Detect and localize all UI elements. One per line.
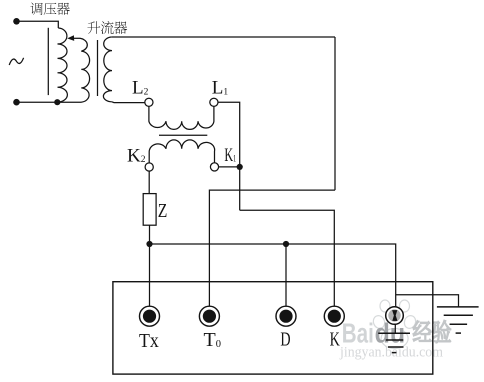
svg-text:Tx: Tx: [139, 330, 159, 352]
wire Z to bottom rail: [149, 225, 151, 306]
T2 core line: [97, 40, 99, 96]
junction dot rail at D: [283, 241, 289, 247]
variac winding: [57, 28, 67, 102]
wire L1 to right vertical: [218, 102, 240, 210]
svg-text:Z: Z: [158, 200, 168, 222]
wire AC top to variac: [17, 21, 59, 28]
terminal T0: [199, 306, 219, 326]
wire AC bottom rail: [17, 101, 82, 103]
terminal D: [276, 306, 296, 326]
L winding (primary): [149, 106, 214, 129]
label 调压器: [30, 2, 42, 14]
mutual inductor core line: [159, 134, 207, 136]
wire earth terminal to internal earth: [394, 324, 396, 333]
wire D riser: [285, 244, 287, 306]
wire right vertical upper: [334, 37, 336, 190]
variac core line: [47, 28, 49, 95]
AC source terminal dot top: [13, 18, 20, 25]
wire to external ground: [396, 295, 459, 307]
watermark baidu paw logo: [372, 300, 418, 349]
wire K2 to Z: [148, 171, 150, 194]
wire T2 secondary top to right: [112, 36, 335, 38]
label 升流器: [87, 21, 100, 34]
terminal K: [324, 306, 344, 326]
T2 primary winding: [80, 38, 90, 102]
variac tap arrow: [67, 35, 74, 41]
wire to terminal K: [240, 210, 335, 306]
bottom rail wire: [150, 244, 396, 307]
node L1: [210, 98, 218, 106]
junction dot AC bottom / variac end: [54, 99, 60, 105]
junction dot rail left: [146, 241, 152, 247]
wire to terminal T0: [209, 190, 335, 306]
terminal earth inner disc: [388, 309, 400, 321]
external ground symbol: [437, 307, 479, 333]
watermark char 经: [413, 321, 431, 342]
AC source terminal dot bottom: [13, 99, 20, 106]
terminal earth outer ring: [386, 307, 404, 325]
K winding (secondary): [149, 140, 214, 163]
T2 secondary winding: [103, 37, 112, 102]
impedance Z: [143, 194, 156, 226]
wire T2 secondary bottom to node L2: [112, 101, 145, 104]
node K2: [145, 163, 153, 171]
terminal earth center mark: [392, 310, 397, 321]
watermark char 验: [433, 320, 451, 342]
svg-text:K: K: [330, 329, 341, 351]
wire tap arrow to T2 primary: [74, 37, 81, 39]
node L2: [145, 98, 153, 106]
wire K1 to junction: [218, 166, 239, 168]
test set box: [113, 282, 433, 374]
node K1: [210, 163, 218, 171]
junction dot L1/K1: [237, 164, 243, 170]
AC source sine symbol: [9, 58, 23, 65]
terminal Tx: [140, 306, 160, 326]
internal earth symbol: [378, 333, 410, 352]
svg-text:D: D: [280, 329, 290, 351]
